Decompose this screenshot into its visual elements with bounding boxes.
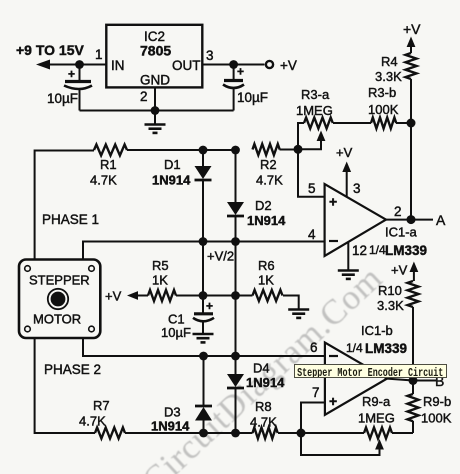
wire R2 to pin5 node — [280, 149, 299, 151]
svg-text:1N914: 1N914 — [246, 375, 285, 390]
ground (regulator) — [145, 125, 166, 133]
capacitor C-in 10uF — [64, 65, 92, 111]
svg-text:D2: D2 — [255, 198, 272, 213]
diode D2 1N914 — [227, 150, 244, 242]
wire pin12 drop — [347, 242, 349, 270]
svg-text:3: 3 — [206, 48, 214, 63]
junction pin7 node — [297, 429, 306, 438]
svg-text:R10: R10 — [378, 283, 402, 298]
wire gnd drop — [154, 111, 156, 124]
svg-text:R1: R1 — [100, 157, 117, 172]
svg-text:4: 4 — [308, 227, 316, 242]
resistor R5 1K — [148, 290, 176, 301]
wire R6 tail — [236, 296, 299, 310]
svg-text:4.7K: 4.7K — [256, 173, 283, 188]
junction rail/D4 — [231, 352, 240, 361]
diode D1 1N914 — [195, 150, 212, 242]
svg-text:IC1-a: IC1-a — [385, 225, 418, 240]
resistor R2 — [253, 144, 280, 155]
svg-text:+: + — [68, 67, 75, 81]
wire bottom rail — [80, 110, 234, 112]
svg-text:R5: R5 — [152, 258, 169, 273]
svg-text:+: + — [329, 194, 337, 210]
junction rail/D1 — [199, 237, 208, 246]
svg-text:2: 2 — [394, 204, 402, 219]
wire pin5 drop — [298, 149, 325, 196]
svg-text:+V: +V — [280, 58, 297, 73]
svg-text:D4: D4 — [253, 361, 270, 376]
svg-text:6: 6 — [310, 340, 318, 355]
wire input to IC2 pin1 — [48, 64, 106, 66]
svg-text:3.3K: 3.3K — [375, 69, 402, 84]
diode D3 1N914 (cathode up) — [195, 356, 212, 433]
svg-text:+V: +V — [391, 263, 408, 278]
wire GND pin stub — [154, 87, 156, 110]
svg-text:1MEG: 1MEG — [358, 411, 395, 426]
wire R8 to pin7 node — [278, 432, 364, 434]
pin6 rail (motor to IC1-b) — [83, 338, 325, 356]
junction D2 — [231, 146, 240, 155]
svg-text:A: A — [436, 212, 446, 228]
svg-text:3.3K: 3.3K — [377, 298, 404, 313]
terminal +V (open circle) — [266, 61, 273, 68]
junction output B — [409, 376, 418, 385]
wire R9-a to R9-b — [392, 432, 413, 434]
junction C1 — [199, 291, 208, 300]
svg-text:1K: 1K — [258, 273, 274, 288]
svg-text:R3-a: R3-a — [301, 87, 330, 102]
junction pin5 node — [294, 145, 303, 154]
svg-text:+V/2: +V/2 — [207, 249, 234, 264]
svg-text:12: 12 — [352, 243, 367, 258]
svg-text:1: 1 — [95, 47, 103, 62]
wire R3-b to R4 node — [396, 122, 411, 124]
junction input cap — [75, 60, 84, 69]
svg-text:1/4: 1/4 — [369, 243, 386, 257]
resistor R3-b 100K — [371, 118, 396, 129]
svg-text:STEPPER: STEPPER — [29, 273, 90, 288]
svg-text:+9 TO 15V: +9 TO 15V — [16, 42, 85, 58]
svg-text:1K: 1K — [152, 273, 168, 288]
svg-text:R3-b: R3-b — [368, 85, 396, 100]
svg-text:3: 3 — [353, 181, 361, 196]
wire pot riser — [298, 123, 304, 149]
svg-text:R2: R2 — [260, 157, 277, 172]
resistor R1 — [94, 145, 127, 156]
junction output cap — [229, 60, 238, 69]
svg-text:+: + — [206, 299, 213, 313]
svg-text:R7: R7 — [93, 398, 110, 413]
svg-text:100K: 100K — [368, 102, 399, 117]
svg-text:+V: +V — [105, 289, 122, 304]
op-amp IC1-b LM339 — [325, 343, 387, 415]
ground (IC1-a pin12) — [338, 271, 359, 279]
wire R1 to D1 node — [127, 149, 236, 151]
+V arrow R10 — [410, 262, 419, 282]
op-amp IC1-a LM339 — [325, 184, 386, 256]
svg-text:+: + — [329, 393, 337, 409]
wire R3-a to R3-b — [333, 122, 371, 124]
input arrow — [36, 60, 50, 70]
wire R5 to C1 node — [176, 295, 236, 297]
capacitor C-out 10uF — [223, 65, 244, 111]
wire +V/2 rail (pin 4) — [83, 242, 325, 260]
svg-text:D1: D1 — [164, 157, 181, 172]
wire D2 node down — [235, 242, 237, 357]
svg-text:+V: +V — [336, 145, 353, 160]
svg-text:R9-b: R9-b — [423, 394, 451, 409]
svg-text:10µF: 10µF — [161, 325, 191, 340]
+V arrow pin3 — [336, 145, 353, 198]
watermark CircuitDiagram.Com — [136, 259, 389, 474]
resistor R10 3.3K — [408, 281, 419, 307]
svg-text:2: 2 — [140, 89, 148, 104]
svg-text:1N914: 1N914 — [152, 173, 191, 188]
junction output A — [407, 215, 416, 224]
stepper motor body — [19, 260, 100, 339]
svg-text:OUT: OUT — [172, 58, 201, 73]
diode D4 1N914 (cathode down) — [227, 356, 244, 433]
tooltip overlay: Stepper Motor Encoder Circuit — [294, 364, 447, 378]
resistor R6 1K — [253, 290, 283, 301]
wire IC2 OUT — [202, 64, 264, 66]
junction D3 — [199, 429, 208, 438]
svg-text:10µF: 10µF — [237, 90, 268, 105]
svg-text:7: 7 — [312, 385, 320, 400]
potentiometer R3-a 1MEG — [298, 118, 333, 150]
junction R6 left — [231, 291, 240, 300]
svg-text:MOTOR: MOTOR — [33, 312, 81, 327]
wiper arrow R9-a — [375, 439, 384, 450]
svg-text:1/4: 1/4 — [346, 341, 363, 355]
svg-text:R4: R4 — [381, 54, 398, 69]
svg-text:4.7K: 4.7K — [79, 414, 106, 429]
+V arrow R4 — [407, 37, 416, 54]
svg-text:PHASE 2: PHASE 2 — [44, 362, 101, 377]
svg-text:1N914: 1N914 — [247, 213, 286, 228]
svg-text:D3: D3 — [164, 405, 181, 420]
junction rail/D2 — [231, 237, 240, 246]
svg-text:7805: 7805 — [140, 43, 171, 59]
capacitor C1 10uF — [193, 296, 214, 334]
junction D1 — [199, 146, 208, 155]
svg-text:5: 5 — [308, 181, 316, 196]
R5 arrow to +V — [127, 291, 148, 300]
svg-text:GND: GND — [140, 73, 170, 88]
svg-text:+V: +V — [403, 21, 421, 37]
svg-text:LM339: LM339 — [365, 341, 407, 356]
svg-text:IC1-b: IC1-b — [361, 323, 393, 338]
junction gnd rail — [151, 106, 160, 115]
resistor R4 3.3K — [406, 53, 417, 79]
wire output A — [386, 219, 433, 221]
svg-text:R9-a: R9-a — [362, 394, 391, 409]
svg-text:10µF: 10µF — [47, 91, 78, 106]
wire D1 node to C1 node — [202, 242, 204, 296]
potentiometer R9-a 1MEG — [364, 428, 392, 439]
svg-text:1MEG: 1MEG — [296, 103, 333, 118]
svg-text:100K: 100K — [421, 411, 452, 426]
svg-text:+: + — [237, 65, 244, 79]
svg-text:IN: IN — [111, 58, 125, 73]
svg-text:PHASE 1: PHASE 1 — [42, 212, 99, 227]
ground (R6) — [288, 310, 309, 318]
wire pin7 loop — [301, 403, 380, 456]
svg-text:LM339: LM339 — [385, 243, 427, 258]
wire R10 to output B — [412, 307, 414, 381]
wire R9-b to bottom row — [412, 381, 414, 434]
resistor R9-b 100K — [408, 394, 419, 421]
junction rail/D3 — [199, 352, 208, 361]
junction R4/R3-b — [407, 119, 416, 128]
junction D4/R8 — [231, 429, 240, 438]
wire phase 1 (motor to R1) — [35, 151, 94, 260]
resistor R8 4.7K — [253, 428, 278, 439]
wire R7 to D3 — [125, 432, 253, 434]
ground (C1) — [193, 334, 214, 342]
wire R4 to output A — [410, 79, 412, 220]
regulator IC2 7805 — [106, 25, 202, 88]
svg-text:R6: R6 — [258, 258, 275, 273]
svg-text:1N914: 1N914 — [151, 419, 190, 434]
resistor R7 4.7K — [95, 428, 125, 439]
svg-text:R8: R8 — [255, 399, 272, 414]
wire phase 2 (motor to R7) — [35, 338, 95, 433]
svg-text:4.7K: 4.7K — [90, 173, 117, 188]
wire output B — [387, 379, 436, 381]
svg-text:4.7K: 4.7K — [250, 415, 277, 430]
